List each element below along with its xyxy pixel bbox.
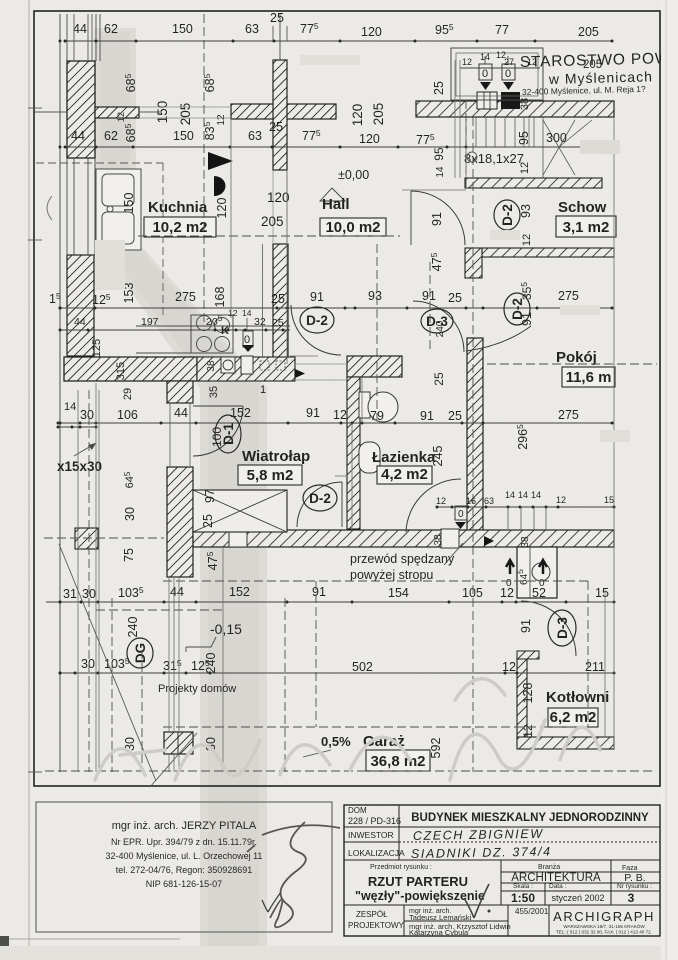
shaft X-box xyxy=(193,490,287,532)
bathroom left wall xyxy=(347,377,360,529)
dashed axis lines xyxy=(44,14,657,772)
schow wall block xyxy=(465,248,482,278)
washbasin xyxy=(359,442,380,473)
chimney up arrows xyxy=(506,560,514,574)
frame tick marks xyxy=(28,108,42,772)
title block xyxy=(344,805,660,936)
door circle D-1 xyxy=(215,415,241,453)
wall band top-right xyxy=(416,101,614,117)
gray office stamp top right xyxy=(520,48,678,97)
scan shadow band (diagonal drift) xyxy=(94,28,267,960)
door circle DG xyxy=(127,638,153,668)
kitchen counter xyxy=(136,315,290,353)
wall kuchnia-hall lower segment xyxy=(273,244,288,358)
arrow under box xyxy=(242,345,254,352)
door circle D-3 xyxy=(421,309,453,333)
hall wardrobe triangle xyxy=(320,188,345,201)
kotlownia left wall xyxy=(517,657,527,744)
comb ticks lazienka chain xyxy=(508,507,546,530)
architect stamp box bottom left xyxy=(36,802,332,932)
drawing frame xyxy=(34,11,660,786)
bottom-left ink blob xyxy=(0,936,9,947)
door circle D-2 xyxy=(494,200,520,230)
faint back-page bleed marks xyxy=(95,55,630,442)
door jambs wiatrolap xyxy=(167,402,193,404)
D half-disc symbol xyxy=(214,176,226,196)
section arrow black triangle xyxy=(208,152,233,170)
central vertical wall xyxy=(467,338,483,531)
door kotlownia arc xyxy=(521,601,576,656)
stairs treads xyxy=(466,117,543,178)
paper left edge xyxy=(28,0,30,960)
kitchen bottom wall right part xyxy=(197,357,295,381)
door D3 hall-lazienka arc xyxy=(413,301,464,352)
small pier left xyxy=(75,528,98,549)
stairs down arrows xyxy=(479,56,515,90)
chimney black block xyxy=(501,92,520,109)
door circle D-2 xyxy=(300,307,334,333)
dimension numbers row1 xyxy=(49,11,614,674)
wall cross vertical xyxy=(273,60,287,170)
extra thin lines top-left xyxy=(34,14,231,118)
handwritten check marks xyxy=(262,884,489,918)
left margin bracket xyxy=(47,196,52,220)
title block texts xyxy=(348,806,655,937)
bathroom top wall xyxy=(347,356,402,377)
wall band under stairs xyxy=(465,178,602,188)
door circle D-3 xyxy=(548,610,576,646)
door pokoj arc xyxy=(466,326,531,351)
window lines west wall xyxy=(67,14,280,255)
door hall-wiatrolap arc xyxy=(297,482,342,527)
signature scribble xyxy=(247,822,340,927)
bottom wall band xyxy=(193,530,614,547)
kitchen sink unit xyxy=(96,169,141,250)
watermark handwriting xyxy=(95,679,600,780)
door D1 arc xyxy=(193,406,243,456)
garage column xyxy=(164,732,193,754)
dimension ticks xyxy=(57,40,616,675)
door circle D-2 xyxy=(303,485,337,511)
black arrow in bottom band xyxy=(484,536,494,546)
chimney white blocks in band xyxy=(477,92,497,109)
door kuchnia-hall arc xyxy=(291,305,341,355)
stairs enclosure xyxy=(451,48,543,100)
bottom paper shade xyxy=(9,938,180,940)
door lazienka arc xyxy=(406,479,461,532)
door circle D-2 xyxy=(504,293,530,325)
dimension lines xyxy=(46,14,614,772)
chimney block kotlownia xyxy=(517,547,557,598)
wiatrolap left wall lower xyxy=(167,467,193,577)
stairs direction diagonals xyxy=(543,120,575,175)
wall axis extension ticks above cross xyxy=(272,26,274,41)
wall cross horizontal xyxy=(231,104,336,119)
boxed 0 arrow at lazienka door xyxy=(455,506,467,520)
stairs dim circle xyxy=(467,152,477,162)
thin construction lines xyxy=(78,60,614,772)
wiatrolap left wall top piece xyxy=(167,381,193,403)
kitchen west wall pier xyxy=(67,255,94,356)
wall stub W2 xyxy=(95,107,139,118)
wall W1 top-left vertical bar xyxy=(67,61,95,158)
garage diagonals xyxy=(59,544,156,781)
kitchen bottom wall xyxy=(64,357,197,381)
schow lower wall band xyxy=(482,248,614,257)
door schow arc xyxy=(411,191,465,245)
kotlownia bottom wall xyxy=(517,737,614,749)
small hatch piece kotlownia top xyxy=(517,651,539,659)
toilet xyxy=(359,392,398,422)
handwritten entries xyxy=(411,827,552,861)
hall doorway edge lines xyxy=(295,363,347,365)
